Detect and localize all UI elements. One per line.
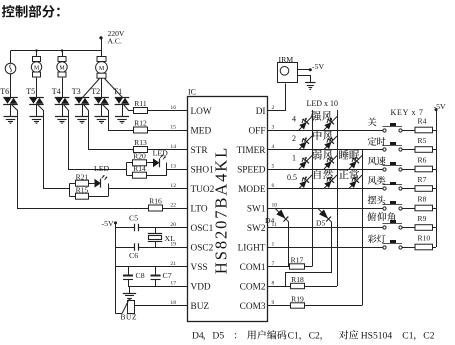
resistor R13	[134, 147, 148, 153]
wire row to key 俯仰角	[268, 227, 383, 229]
motor M3 (pitch)	[57, 57, 67, 78]
wire gate T2	[103, 105, 134, 131]
lamp (colour light load)	[5, 63, 16, 74]
wire M4 to T1	[105, 79, 123, 98]
wire key to R8	[402, 208, 415, 210]
wire T3 to ground	[82, 104, 84, 116]
resistor R12	[134, 127, 148, 133]
resistor R11	[134, 108, 148, 114]
wire IRM output to DI	[268, 84, 286, 111]
wire LED column 2	[337, 110, 339, 286]
wire key to R5	[402, 149, 415, 151]
wire 5V bus	[436, 110, 438, 247]
LED matrix #3	[299, 136, 312, 150]
LED matrix #8	[299, 175, 312, 189]
buzzer BUZ	[122, 301, 135, 314]
wire R11 to IC	[148, 110, 188, 112]
svg-text:T5: T5	[26, 87, 35, 96]
svg-text:LOW: LOW	[191, 107, 212, 117]
svg-text:10: 10	[272, 202, 278, 208]
wire R7 to 5V bus	[433, 188, 437, 190]
svg-text:3: 3	[272, 124, 275, 130]
svg-text:SW1: SW1	[247, 204, 266, 214]
label 自然	[314, 169, 333, 179]
svg-text:R8: R8	[418, 195, 427, 204]
triac T1	[115, 98, 130, 105]
wire row to key 关	[268, 130, 383, 132]
svg-text:R9: R9	[418, 214, 427, 223]
svg-text:LED: LED	[153, 149, 169, 158]
svg-text:HS5104: HS5104	[361, 331, 393, 342]
LED matrix #2	[324, 117, 337, 131]
svg-text:R14: R14	[133, 164, 146, 173]
wire M2 to T5	[36, 78, 38, 98]
svg-text:C1: C1	[288, 331, 299, 342]
wire LED column 3	[362, 150, 364, 306]
svg-text:C1: C1	[402, 331, 413, 342]
label 彩灯	[368, 235, 386, 244]
key 关	[382, 123, 402, 132]
svg-text:8: 8	[272, 280, 275, 286]
resistor R17	[290, 264, 305, 269]
wire key to R7	[402, 188, 415, 190]
capacitor C8	[123, 267, 133, 287]
wire M4 to T3	[83, 79, 100, 98]
ground under T4	[55, 117, 69, 124]
LED matrix #4	[324, 136, 337, 150]
wire R13 to IC	[148, 149, 188, 151]
resistor R5	[415, 147, 433, 153]
wire gate T5	[38, 105, 70, 189]
svg-text:1: 1	[272, 241, 275, 247]
wire D5 to COM2	[286, 222, 332, 287]
note D4 D5 user code text	[192, 330, 435, 341]
wire R4 to 5V bus	[433, 130, 437, 132]
LED indicator (TUO2)	[95, 175, 108, 188]
svg-text:OFF: OFF	[248, 126, 265, 136]
svg-text:18: 18	[170, 300, 176, 306]
wire SHO1 block right bracket	[166, 163, 168, 176]
LED indicator (SHO1)	[153, 155, 166, 168]
ground (VDD)	[123, 294, 136, 301]
motor M2 (swing)	[31, 57, 41, 78]
wire R17 to column	[305, 266, 313, 268]
resistor R18	[291, 283, 305, 288]
title text 控制部分	[2, 5, 60, 18]
svg-text:IC: IC	[188, 88, 196, 97]
diode D4 (user code C1)	[275, 208, 289, 222]
svg-text:SHO1: SHO1	[191, 165, 215, 175]
svg-text:COM3: COM3	[240, 302, 266, 312]
svg-text:15: 15	[170, 124, 176, 130]
IR receiver IRM	[278, 63, 298, 83]
svg-text:4: 4	[292, 115, 296, 124]
wire R5 to 5V bus	[433, 149, 437, 151]
svg-text:5: 5	[272, 163, 275, 169]
svg-text:R17: R17	[291, 256, 304, 265]
wire VSS row	[116, 266, 188, 268]
svg-text:R16: R16	[149, 197, 162, 206]
label 风类	[368, 176, 386, 185]
diode D5 (user code C2)	[318, 208, 332, 222]
svg-text:C7: C7	[163, 271, 172, 280]
svg-text:R13: R13	[134, 138, 147, 147]
svg-text:R6: R6	[418, 156, 427, 165]
resistor R8	[415, 205, 433, 211]
wire key to R4	[402, 130, 415, 132]
svg-text:17: 17	[170, 280, 176, 286]
resistor R14	[133, 172, 147, 178]
svg-text:C8: C8	[136, 271, 145, 280]
svg-text:TIMER: TIMER	[237, 146, 267, 156]
LED matrix #9	[324, 175, 337, 189]
triac T5	[29, 98, 44, 105]
label 风速	[368, 156, 386, 165]
wire lamp to T6	[10, 74, 12, 98]
svg-text:D4: D4	[192, 331, 204, 342]
svg-text:T3: T3	[72, 87, 81, 96]
svg-text:R19: R19	[291, 295, 304, 304]
wire XL bottom lead	[155, 242, 157, 247]
wire row to key 摆头	[268, 208, 383, 210]
svg-text:D4: D4	[265, 216, 274, 225]
wire AC bus	[11, 50, 102, 52]
key 定时	[382, 142, 402, 151]
resistor R10	[415, 244, 433, 250]
LED matrix #10	[349, 175, 362, 189]
wire R19 to column	[305, 305, 363, 307]
wire BUZ row	[135, 305, 188, 307]
svg-text:16: 16	[170, 105, 176, 111]
svg-text:T1: T1	[113, 87, 122, 96]
svg-text:R5: R5	[418, 136, 427, 145]
wire LED column 1	[312, 110, 314, 267]
node 220V A.C. supply	[99, 29, 124, 46]
wire T6 to ground	[10, 104, 12, 116]
resistor R15	[76, 193, 89, 199]
capacitor C6	[135, 243, 139, 250]
key 风类	[382, 182, 402, 190]
wire TUO2 bottom branch	[70, 196, 76, 198]
resistor R6	[415, 166, 433, 172]
svg-text:1: 1	[292, 154, 296, 163]
svg-text:LIGHT: LIGHT	[238, 243, 266, 253]
svg-text:R21: R21	[76, 173, 89, 182]
crystal XL	[148, 234, 162, 242]
wire gate T6	[12, 105, 149, 209]
wire T4 to ground	[62, 104, 64, 116]
triac T4	[55, 98, 70, 105]
wire bus drop to lamp	[10, 51, 12, 64]
svg-text:TUO2: TUO2	[191, 185, 215, 195]
svg-text:D5: D5	[212, 331, 224, 342]
svg-text:BUZ: BUZ	[191, 302, 210, 312]
wire row to key 彩灯	[268, 247, 383, 249]
label 睡眠	[339, 150, 359, 160]
wire OSC1 row	[116, 227, 135, 229]
triac T3	[75, 98, 90, 105]
svg-text:M: M	[59, 65, 65, 71]
wire bus drop to M3	[62, 51, 64, 57]
svg-text:A.C.: A.C.	[108, 36, 122, 45]
wire R8 to 5V bus	[433, 208, 437, 210]
svg-text:C5: C5	[129, 213, 138, 222]
wire IRM to ground	[298, 76, 311, 83]
svg-text:STR: STR	[191, 146, 209, 156]
svg-text:T6: T6	[0, 87, 9, 96]
ground under T6	[4, 117, 18, 124]
wire row to key 风速	[268, 169, 383, 171]
svg-text:0.5: 0.5	[287, 173, 297, 182]
triac T6	[3, 98, 18, 105]
key 彩灯	[382, 240, 402, 249]
label 摆头	[368, 195, 386, 204]
svg-text:COM2: COM2	[240, 282, 266, 292]
junction dot bus-M3	[61, 49, 63, 51]
wire COM row to R17	[268, 266, 290, 268]
svg-text:KEY x 7: KEY x 7	[391, 108, 424, 117]
IC U1 HS8207BA4KL box	[188, 97, 268, 322]
svg-text:T4: T4	[52, 87, 61, 96]
wire buzzer to -5V rail	[116, 313, 123, 315]
wire SHO1 top branch	[127, 162, 133, 164]
wire XL top lead	[155, 228, 157, 234]
svg-text:C2: C2	[309, 331, 320, 342]
wire COM row to R18	[268, 286, 291, 288]
ground under T5	[30, 117, 44, 124]
ground (IRM)	[305, 83, 316, 91]
motor M4 (fan main)	[96, 57, 108, 79]
svg-text:OSC2: OSC2	[191, 243, 214, 253]
resistor R20	[133, 160, 147, 166]
svg-text:19: 19	[170, 241, 176, 247]
label 弱风	[312, 150, 333, 160]
label 俯仰角	[367, 212, 395, 221]
svg-text:DI: DI	[256, 107, 266, 117]
svg-text:14: 14	[170, 144, 176, 150]
wire R16 to IC	[163, 208, 188, 210]
wire VDD row	[128, 286, 188, 288]
svg-text:LED x 10: LED x 10	[307, 99, 339, 108]
resistor R4	[415, 127, 433, 133]
triac T2	[94, 98, 109, 105]
wire gate T3	[84, 105, 134, 150]
svg-text:22: 22	[170, 202, 176, 208]
svg-text:R10: R10	[418, 234, 431, 243]
label 定时	[368, 137, 386, 146]
label 正常	[339, 169, 359, 179]
ground under T3	[75, 117, 89, 124]
capacitor C5	[135, 224, 139, 231]
LED matrix #7	[349, 156, 362, 170]
svg-text:R7: R7	[418, 175, 427, 184]
wire TUO2 exit to IC	[108, 188, 187, 190]
wire gate T4	[64, 105, 127, 170]
wire SHO1 exit to IC	[167, 169, 188, 171]
wire gate T1	[124, 105, 134, 111]
svg-text:R20: R20	[133, 152, 146, 161]
wire 220V drop to motor M4	[101, 38, 103, 56]
key 俯仰角	[382, 220, 402, 229]
svg-text:12: 12	[170, 183, 176, 189]
wire D4 to COM1	[288, 222, 290, 267]
svg-text:VSS: VSS	[191, 263, 208, 273]
key 摆头	[382, 201, 402, 210]
label 中风	[313, 130, 333, 140]
ground under T2	[95, 117, 109, 124]
svg-text:BUZ: BUZ	[121, 313, 138, 322]
wire key to R6	[402, 169, 415, 171]
svg-text:M: M	[34, 65, 40, 71]
svg-text:MODE: MODE	[238, 185, 266, 195]
resistor R16	[149, 205, 163, 211]
wire IRM to -5V	[297, 69, 310, 71]
svg-text:2: 2	[292, 134, 296, 143]
svg-text:R11: R11	[134, 99, 147, 108]
wire TUO2 block left bracket	[69, 184, 71, 197]
resistor R21	[76, 180, 89, 186]
wire COM row to R19	[268, 305, 291, 307]
wire SHO1 bottom branch	[127, 175, 133, 177]
svg-text:M: M	[99, 66, 105, 72]
svg-text:D5: D5	[316, 218, 325, 227]
resistor R7	[415, 186, 433, 192]
junction dot bus-lamp	[35, 49, 37, 51]
wire T2 to ground	[101, 104, 103, 116]
svg-text:21: 21	[170, 261, 176, 267]
svg-text:-5V: -5V	[102, 219, 114, 228]
LED matrix #5	[299, 156, 312, 170]
wire row to key 风类	[268, 188, 383, 190]
wire bus drop to M2	[36, 51, 38, 57]
svg-text:COM1: COM1	[240, 263, 266, 273]
wire M3 to T4	[62, 78, 64, 98]
svg-text:MED: MED	[191, 126, 212, 136]
wire OSC2 row	[116, 247, 135, 249]
svg-text:SW2: SW2	[247, 224, 266, 234]
svg-text:20: 20	[170, 222, 176, 228]
wire R12 to IC	[148, 130, 188, 132]
svg-text:T2: T2	[91, 87, 100, 96]
node -5V rail dot	[114, 221, 117, 224]
svg-text:R4: R4	[418, 117, 427, 126]
wire key to R10	[402, 247, 415, 249]
ground under T1	[115, 117, 129, 124]
wire R18 to column	[305, 286, 338, 288]
svg-text:HS8207BA4KL: HS8207BA4KL	[212, 146, 231, 274]
wire R10 to 5V bus	[433, 247, 437, 249]
svg-text:LED: LED	[94, 164, 110, 173]
LED matrix #1	[299, 117, 312, 131]
svg-text:VDD: VDD	[191, 282, 211, 292]
wire VDD to ground	[129, 286, 131, 293]
wire -5V rail	[115, 223, 117, 314]
resistor R19	[291, 303, 305, 308]
resistor R9	[415, 225, 433, 231]
wire row to key 定时	[268, 149, 383, 151]
svg-text:SPEED: SPEED	[237, 165, 266, 175]
node -5V dot (IRM)	[309, 68, 312, 71]
svg-text:R15: R15	[76, 186, 89, 195]
svg-text:C2: C2	[423, 331, 434, 342]
node 5V dot (right)	[435, 108, 438, 111]
wire T5 to ground	[36, 104, 38, 116]
svg-text:R18: R18	[291, 275, 304, 284]
LED matrix #6	[324, 156, 337, 170]
wire M4 to T2	[101, 78, 103, 97]
svg-text:C6: C6	[129, 251, 138, 260]
capacitor C7	[151, 267, 161, 287]
svg-text:-5V: -5V	[312, 62, 324, 71]
svg-text:OSC1: OSC1	[191, 224, 214, 234]
wire T1 to ground	[122, 104, 124, 116]
wire key to R9	[402, 227, 415, 229]
wire SHO1 block left bracket	[126, 163, 128, 176]
wire TUO2 block right bracket	[108, 184, 110, 197]
svg-text:LTO: LTO	[191, 204, 208, 214]
svg-text:R12: R12	[134, 119, 147, 128]
wire R9 to 5V bus	[433, 227, 437, 229]
label 强风	[311, 111, 332, 121]
svg-text:13: 13	[170, 163, 176, 169]
wire R6 to 5V bus	[433, 169, 437, 171]
label 关	[368, 118, 377, 127]
wire TUO2 top branch	[70, 183, 76, 185]
key 风速	[382, 162, 402, 171]
